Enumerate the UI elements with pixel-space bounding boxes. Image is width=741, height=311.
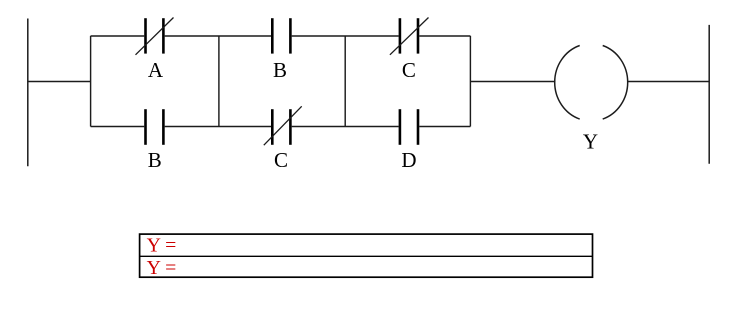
- output coil Y: [555, 46, 628, 120]
- right power rail: [708, 25, 710, 164]
- svg-text:A: A: [148, 58, 164, 82]
- wire: top branch segment 4: [419, 35, 470, 37]
- contact C upper branch (normally closed): [390, 18, 429, 55]
- wire: junction divider between block 2 and block 3: [344, 36, 346, 127]
- wire: coil to right rail: [627, 81, 709, 83]
- wire: bottom branch segment 2: [165, 126, 271, 128]
- contact D lower branch (normally open): [400, 109, 418, 145]
- wire: bottom branch segment 3: [292, 126, 399, 128]
- wire: branch block right edge: [469, 36, 471, 127]
- svg-text:B: B: [273, 58, 287, 82]
- answer table box: [140, 234, 593, 277]
- wire: top branch segment 2: [165, 35, 271, 37]
- wire: branch block to coil: [470, 81, 555, 83]
- label B (upper, block 2): [273, 58, 287, 82]
- wire: branch block left edge: [90, 36, 92, 127]
- answer row 1 text Y =: [147, 234, 177, 256]
- svg-text:Y: Y: [583, 130, 598, 154]
- left power rail: [27, 19, 29, 167]
- wire: bottom branch segment 4: [419, 126, 470, 128]
- svg-text:D: D: [401, 148, 416, 172]
- svg-text:C: C: [274, 148, 288, 172]
- answer row 2 text Y =: [147, 257, 177, 279]
- svg-text:Y =: Y =: [147, 257, 177, 279]
- wire: left rail to branch block: [28, 81, 91, 83]
- label C (lower, block 2): [274, 148, 288, 172]
- svg-text:Y =: Y =: [147, 234, 177, 256]
- label Y (coil): [583, 130, 598, 154]
- contact B upper branch (normally open): [272, 18, 290, 53]
- wire: top branch segment 1: [91, 35, 145, 37]
- label B (lower, block 1): [148, 148, 162, 172]
- svg-text:C: C: [402, 58, 416, 82]
- answer table divider: [140, 255, 593, 257]
- contact C lower branch (normally closed): [264, 106, 302, 145]
- label A: [148, 58, 164, 82]
- contact B lower branch (normally open): [146, 109, 164, 145]
- wire: bottom branch segment 1: [91, 126, 145, 128]
- contact A (normally closed): [136, 18, 174, 55]
- label C (upper, block 3): [402, 58, 416, 82]
- label D (lower, block 3): [401, 148, 416, 172]
- wire: top branch segment 3: [292, 35, 399, 37]
- wire: junction divider between block 1 and block 2: [218, 36, 220, 127]
- svg-text:B: B: [148, 148, 162, 172]
